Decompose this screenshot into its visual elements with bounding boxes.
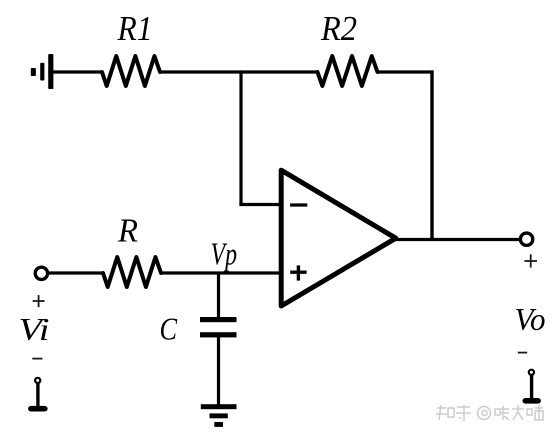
glyph miao <box>527 405 543 420</box>
wire inverting branch horizontal <box>239 203 280 206</box>
op-amp U1 <box>281 170 396 306</box>
reference terminal stake (Vi minus) <box>28 378 47 412</box>
label minus input polarity <box>32 358 42 360</box>
resistor R <box>103 257 161 287</box>
wire R2 to feedback corner <box>378 70 434 73</box>
svg-text:Vo: Vo <box>515 301 546 337</box>
label + input polarity <box>33 295 45 307</box>
wire op-amp output <box>396 238 519 241</box>
wire capacitor to GND2 <box>217 337 220 406</box>
svg-text:C: C <box>160 311 178 347</box>
wire inverting branch vertical <box>239 70 242 204</box>
glyph ao <box>495 406 509 420</box>
resistor R1 <box>102 56 160 86</box>
output terminal circle (Vo) <box>520 233 532 245</box>
wire R1 to R2 <box>160 70 319 73</box>
wire R to op-amp plus input <box>161 271 280 274</box>
wire input to R <box>49 271 104 274</box>
resistor R2 <box>318 56 378 86</box>
glyph da <box>512 405 524 420</box>
wire Vp node down to capacitor <box>217 273 220 318</box>
svg-text:R1: R1 <box>117 10 153 48</box>
ground GND2 <box>201 404 237 427</box>
glyph at <box>478 407 491 420</box>
glyph hu <box>456 405 471 421</box>
wire GND1 to R1 <box>51 70 103 73</box>
svg-text:Vp: Vp <box>211 236 238 272</box>
glyph zhi <box>436 405 454 420</box>
label minus output polarity <box>518 352 527 354</box>
svg-text:R2: R2 <box>320 10 357 48</box>
capacitor C <box>200 317 237 337</box>
reference terminal stake (Vo minus) <box>523 370 541 404</box>
input terminal circle (Vi) <box>35 267 47 279</box>
wire feedback vertical <box>430 70 433 239</box>
svg-text:R: R <box>117 213 138 250</box>
svg-text:Vi: Vi <box>19 311 50 347</box>
ground GND1 (left wall ground, rotated) <box>31 54 54 89</box>
watermark 知乎 @嗷大喵 <box>436 405 543 421</box>
label + output polarity <box>524 254 537 267</box>
